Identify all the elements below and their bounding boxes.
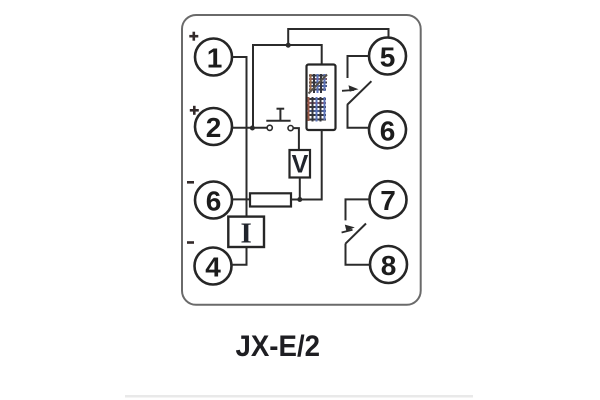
terminal 8: [370, 246, 407, 283]
terminal 5: [369, 38, 406, 75]
logic module box: [307, 65, 336, 131]
current element I box: [228, 217, 264, 247]
wire: terminal 1 to current element I (vertical bus): [232, 57, 247, 217]
svg-text:JX-E/2: JX-E/2: [236, 330, 321, 363]
terminal 2: [195, 108, 232, 145]
contact K1 (terminals 5-6): [342, 56, 371, 128]
terminal 1: [195, 39, 232, 76]
wire: current element I to terminal 4: [231, 247, 247, 265]
terminal 4: [195, 248, 232, 285]
wire: pushbutton to voltage element V: [294, 128, 299, 150]
terminal 6 right: [369, 111, 406, 148]
resistor R: [250, 193, 291, 206]
pushbutton SB (reset button): [266, 109, 293, 131]
svg-text:5: 5: [380, 42, 396, 73]
junction node C (V/resistor): [297, 197, 302, 202]
svg-text:4: 4: [205, 252, 221, 283]
voltage element V box: [290, 150, 311, 178]
svg-text:6: 6: [206, 186, 222, 217]
polarity + (terminal 1): [189, 32, 198, 41]
wire: node to logic box top: [253, 45, 322, 128]
polarity + (terminal 2): [190, 106, 199, 115]
wire: terminal 2 to pushbutton node: [232, 127, 267, 129]
terminal 6 left: [195, 182, 232, 219]
wire: terminal 6 left to resistor: [232, 198, 250, 200]
polarity - (terminal 6 left): [187, 181, 194, 184]
svg-text:6: 6: [380, 115, 396, 146]
svg-text:I: I: [241, 217, 252, 249]
wire: V box to resistor node: [299, 178, 301, 200]
wire: resistor to logic box bottom: [291, 130, 322, 200]
terminal 7: [370, 181, 407, 218]
svg-text:2: 2: [206, 112, 222, 143]
junction node B (top rail): [286, 43, 291, 48]
svg-text:1: 1: [207, 43, 223, 74]
label: rotated character 2 (logic): [307, 97, 326, 122]
wire: top node to terminal 5: [288, 29, 388, 45]
contact K2 (terminals 7-8): [342, 199, 371, 264]
svg-text:V: V: [292, 151, 309, 179]
polarity - (terminal 4): [187, 241, 194, 244]
svg-text:8: 8: [381, 250, 397, 281]
svg-text:7: 7: [380, 185, 396, 216]
separator line (page rule): [125, 395, 473, 398]
label: rotated character 1 (logic): [309, 74, 328, 94]
relay case outline: [182, 15, 421, 305]
junction node A (terminal2/pushbutton): [250, 126, 255, 131]
